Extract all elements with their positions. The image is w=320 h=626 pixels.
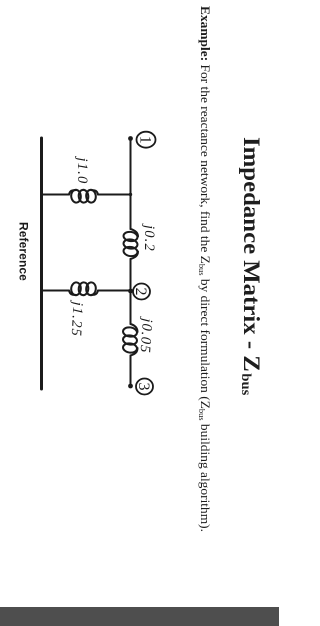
wire bus node1 to j0.2 coil	[130, 139, 132, 230]
inductor L2 j1.25	[92, 291, 99, 295]
branch wire j1.0 to reference	[42, 194, 70, 196]
svg-text:j1.0: j1.0	[74, 156, 90, 185]
wire j0.2 to node2 to j0.05	[130, 259, 132, 324]
svg-text:Reference: Reference	[17, 222, 31, 281]
svg-text:3: 3	[135, 383, 152, 391]
node 3 circle	[136, 379, 153, 395]
branch wire j1.25 to reference	[42, 290, 70, 292]
title	[240, 137, 263, 395]
svg-text:j0.05: j0.05	[137, 316, 156, 354]
node 1 terminal dot	[128, 136, 133, 141]
bottom dark bar	[0, 607, 279, 626]
inductor L23 j0.05	[131, 324, 138, 332]
node 3 terminal dot	[128, 384, 133, 389]
node 1 circle	[137, 132, 156, 148]
node 2 circle	[133, 284, 150, 300]
example text	[197, 6, 211, 532]
svg-text:j1.25: j1.25	[68, 299, 86, 337]
svg-text:2: 2	[132, 288, 149, 296]
svg-text:j0.2: j0.2	[141, 223, 157, 252]
node 2 dot	[128, 289, 133, 294]
branch wire node2 to j1.25	[98, 290, 131, 292]
inductor L1 j1.0	[92, 190, 99, 194]
inductor L12 j0.2	[131, 229, 139, 237]
svg-text:1: 1	[136, 136, 153, 144]
wire j0.05 to node3	[130, 356, 132, 387]
junction node1-branch	[129, 193, 132, 196]
branch wire bus to j1.0	[98, 194, 131, 196]
reference bus line	[40, 138, 43, 389]
